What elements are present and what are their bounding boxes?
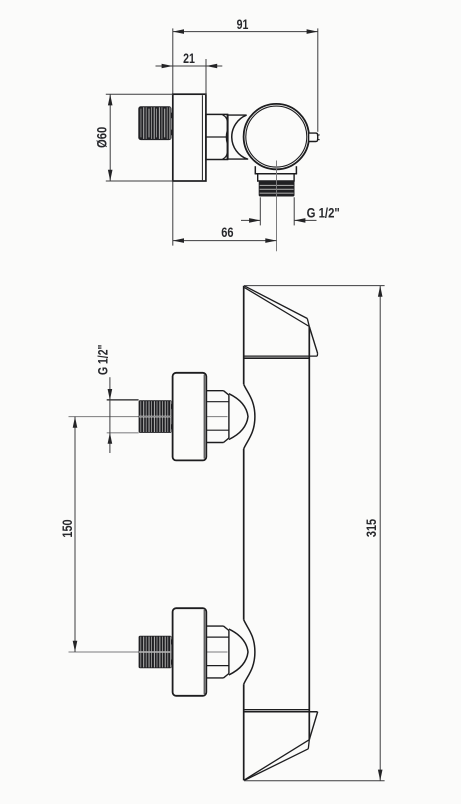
svg-text:G 1/2": G 1/2" xyxy=(307,205,340,220)
svg-text:315: 315 xyxy=(364,519,379,538)
svg-text:150: 150 xyxy=(60,519,75,538)
svg-text:21: 21 xyxy=(183,51,195,66)
svg-text:G 1/2": G 1/2" xyxy=(95,345,110,376)
svg-text:91: 91 xyxy=(237,17,249,32)
svg-text:Ø60: Ø60 xyxy=(95,126,110,148)
svg-text:66: 66 xyxy=(221,225,234,240)
